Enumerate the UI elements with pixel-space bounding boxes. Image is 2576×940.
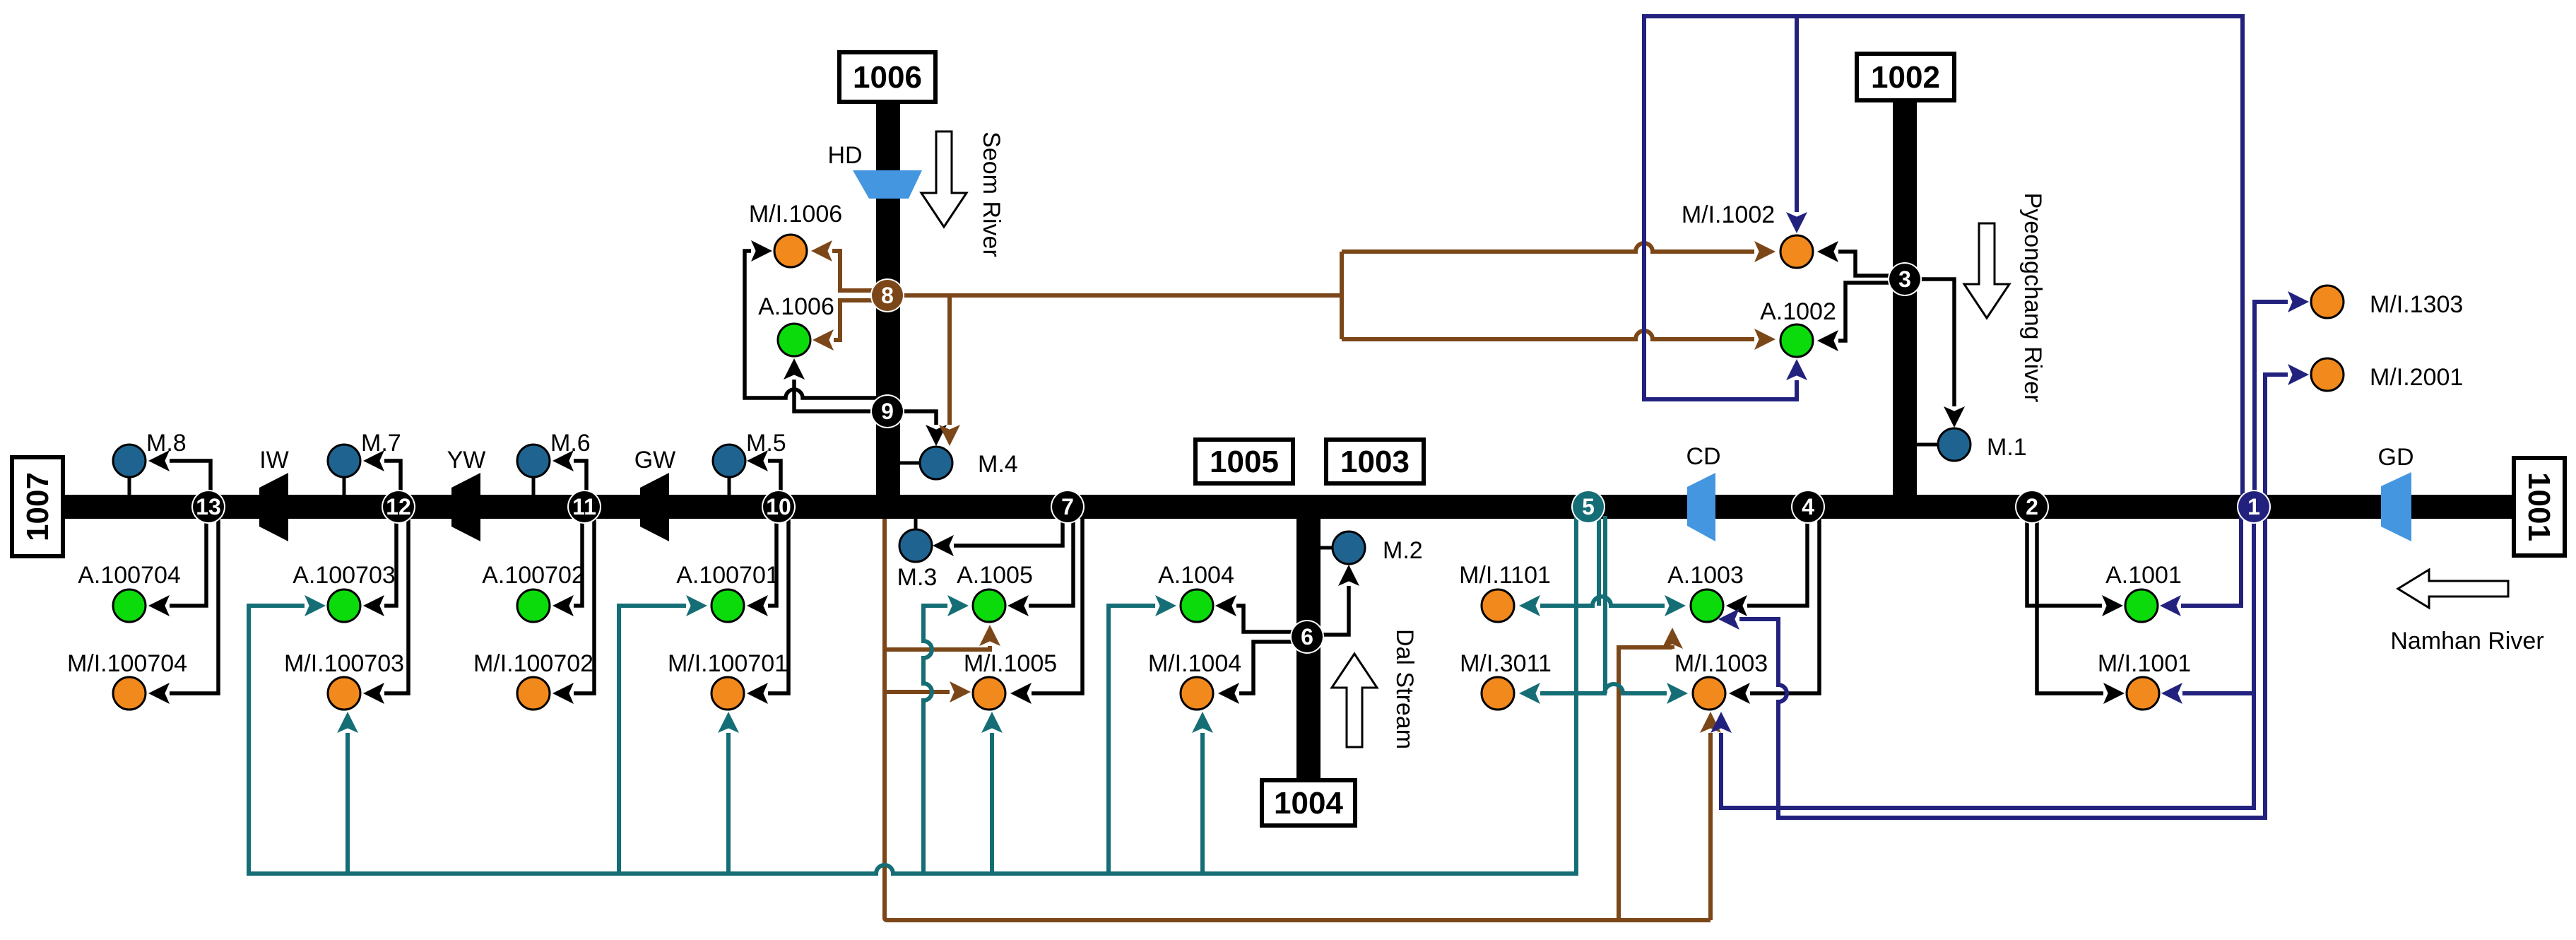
- svg-text:A.100704: A.100704: [78, 562, 181, 589]
- svg-text:Seom River: Seom River: [978, 131, 1005, 257]
- svg-text:M.4: M.4: [978, 451, 1018, 478]
- svg-text:7: 7: [1061, 494, 1074, 519]
- svg-text:11: 11: [572, 494, 596, 519]
- svg-text:A.1005: A.1005: [957, 562, 1033, 589]
- svg-text:M/I.1002: M/I.1002: [1682, 201, 1775, 228]
- svg-text:A.1001: A.1001: [2105, 562, 2182, 589]
- svg-text:CD: CD: [1686, 443, 1720, 470]
- svg-text:10: 10: [766, 494, 791, 519]
- svg-text:A.1002: A.1002: [1760, 298, 1836, 325]
- svg-text:3: 3: [1898, 266, 1911, 292]
- svg-text:1002: 1002: [1871, 60, 1940, 95]
- svg-text:M/I.1006: M/I.1006: [749, 201, 842, 228]
- svg-text:1004: 1004: [1274, 786, 1343, 821]
- svg-text:M/I.1004: M/I.1004: [1148, 650, 1241, 677]
- svg-text:12: 12: [386, 494, 411, 519]
- svg-text:A.1003: A.1003: [1667, 562, 1744, 589]
- svg-text:A.1004: A.1004: [1158, 562, 1234, 589]
- svg-text:M/I.1101: M/I.1101: [1459, 562, 1551, 589]
- svg-text:Pyeongchang River: Pyeongchang River: [2019, 193, 2046, 403]
- svg-text:1005: 1005: [1210, 445, 1279, 479]
- svg-text:M/I.100701: M/I.100701: [668, 650, 788, 677]
- svg-text:1007: 1007: [20, 472, 55, 541]
- svg-text:2: 2: [2026, 494, 2038, 519]
- svg-text:M.1: M.1: [1987, 434, 2027, 461]
- svg-text:M/I.100702: M/I.100702: [473, 650, 593, 677]
- svg-text:M/I.2001: M/I.2001: [2370, 364, 2463, 391]
- svg-text:A.1006: A.1006: [758, 293, 834, 320]
- svg-text:9: 9: [881, 399, 894, 424]
- svg-text:M/I.1005: M/I.1005: [964, 650, 1057, 677]
- svg-text:M/I.3011: M/I.3011: [1460, 650, 1552, 677]
- svg-text:1006: 1006: [853, 60, 922, 95]
- svg-text:YW: YW: [447, 447, 486, 474]
- svg-text:M/I.100703: M/I.100703: [284, 650, 404, 677]
- svg-text:M.6: M.6: [550, 430, 591, 457]
- svg-text:HD: HD: [827, 142, 862, 169]
- svg-text:5: 5: [1582, 494, 1595, 519]
- svg-text:M.5: M.5: [746, 430, 786, 457]
- svg-text:M/I.1003: M/I.1003: [1674, 650, 1768, 677]
- svg-text:8: 8: [881, 283, 894, 308]
- svg-text:M.7: M.7: [361, 430, 401, 457]
- svg-text:GD: GD: [2378, 444, 2414, 471]
- svg-text:A.100703: A.100703: [293, 562, 396, 589]
- svg-text:6: 6: [1301, 624, 1313, 650]
- svg-text:1001: 1001: [2522, 472, 2556, 541]
- svg-text:A.100701: A.100701: [676, 562, 779, 589]
- svg-text:GW: GW: [634, 447, 676, 474]
- svg-text:M/I.100704: M/I.100704: [67, 650, 187, 677]
- svg-text:Namhan River: Namhan River: [2390, 628, 2543, 654]
- svg-text:IW: IW: [259, 447, 289, 474]
- svg-text:1: 1: [2247, 494, 2260, 519]
- svg-text:A.100702: A.100702: [482, 562, 585, 589]
- svg-text:M/I.1001: M/I.1001: [2098, 650, 2191, 677]
- svg-text:13: 13: [196, 494, 221, 519]
- svg-text:1003: 1003: [1340, 445, 1410, 479]
- svg-text:4: 4: [1802, 494, 1814, 519]
- svg-text:M/I.1303: M/I.1303: [2370, 291, 2463, 318]
- svg-text:M.2: M.2: [1383, 537, 1423, 564]
- svg-text:M.3: M.3: [897, 564, 938, 591]
- svg-text:Dal Stream: Dal Stream: [1391, 629, 1418, 749]
- svg-text:M.8: M.8: [146, 430, 187, 457]
